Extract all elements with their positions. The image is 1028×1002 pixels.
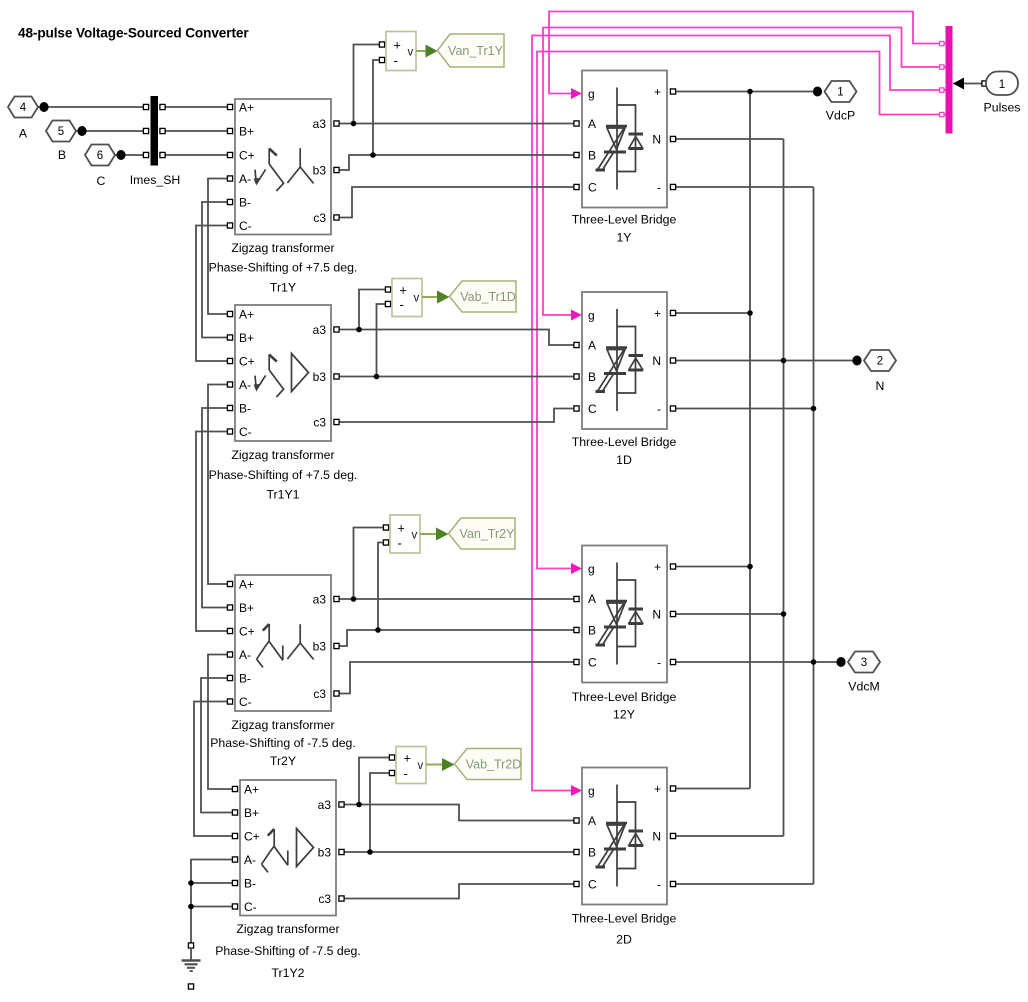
- bridge 1Y N output port square: [670, 136, 675, 141]
- svg-text:1D: 1D: [616, 453, 632, 467]
- input port 6 (C): [85, 145, 115, 166]
- Tr1Y1 a3 port square: [334, 327, 339, 332]
- wire phase B input row: [76, 130, 148, 132]
- wire Tr1Y a3 to 1Y A: [337, 123, 577, 125]
- Vab_Tr1D minus port square: [385, 301, 390, 306]
- wire Tr1Y2 b3 to 2D B: [342, 851, 577, 853]
- Tr1Y1 C- port square: [227, 429, 232, 434]
- svg-text:Pulses: Pulses: [984, 101, 1021, 115]
- Vab_Tr2D minus port square: [389, 770, 394, 775]
- wire 2D plus to plus bus: [673, 788, 750, 790]
- ground lone square: [188, 984, 193, 989]
- bridge 12Y + output port square: [670, 564, 675, 569]
- wire 1Y minus to minus bus: [673, 186, 814, 188]
- Tr1Y c3 port square: [334, 215, 339, 220]
- svg-text:1: 1: [999, 79, 1005, 91]
- wire tap a3 to Van_Tr1Y plus: [354, 45, 383, 124]
- svg-text:+: +: [654, 306, 661, 320]
- wire Tr1Y A- to Tr1Y1 A+: [208, 179, 230, 315]
- svg-text:+: +: [398, 521, 405, 535]
- wire Tr1Y1 C- to Tr2Y C+: [196, 432, 230, 632]
- Van_Tr1Y minus port square: [379, 57, 384, 62]
- goto tag Van_Tr2Y: [449, 518, 516, 549]
- wire Tr2Y a3 to 12Y A: [337, 598, 577, 600]
- junction Van_Tr1Y plus tap: [351, 121, 357, 127]
- svg-text:C+: C+: [244, 829, 260, 843]
- svg-text:Three-Level Bridge: Three-Level Bridge: [572, 213, 677, 227]
- svg-text:1: 1: [837, 87, 843, 99]
- svg-text:g: g: [588, 784, 595, 798]
- svg-text:Three-Level Bridge: Three-Level Bridge: [572, 435, 677, 449]
- wire tap b3 to Vab_Tr2D minus: [370, 773, 392, 852]
- Tr2Y A+ port square: [227, 581, 232, 586]
- bridge 2D A port square: [574, 818, 579, 823]
- Tr1Y A- port square: [227, 176, 232, 181]
- svg-text:a3: a3: [313, 592, 327, 606]
- svg-text:A+: A+: [244, 782, 259, 796]
- svg-text:A-: A-: [239, 172, 251, 186]
- svg-text:a3: a3: [318, 798, 332, 812]
- transformer Tr1Y1: [209, 305, 358, 502]
- wire tap a3 to Van_Tr2Y plus: [354, 528, 387, 600]
- svg-text:B-: B-: [239, 671, 251, 685]
- svg-text:A+: A+: [239, 577, 254, 591]
- Tr1Y1 A- port square: [227, 382, 232, 387]
- output port 1 (VdcP): [825, 81, 857, 102]
- Tr1Y2 c3 port square: [339, 896, 344, 901]
- svg-text:g: g: [588, 308, 595, 322]
- arrowhead into 1D gate: [571, 310, 582, 321]
- Van_Tr2Y plus port square: [383, 525, 388, 530]
- wire phase C input row: [115, 154, 148, 156]
- wire 1D minus to minus bus: [673, 408, 814, 410]
- wire 1Y plus to VdcP: [673, 91, 818, 93]
- svg-text:Phase-Shifting of +7.5 deg.: Phase-Shifting of +7.5 deg.: [209, 261, 358, 275]
- Tr2Y b3 port square: [334, 643, 339, 648]
- bridge 1D B port square: [574, 374, 579, 379]
- node port N dot: [852, 356, 861, 366]
- svg-text:VdcM: VdcM: [848, 680, 879, 694]
- wire tap b3 to Van_Tr1Y minus: [373, 60, 382, 155]
- Tr1Y C+ port square: [227, 152, 232, 157]
- junction Vab_Tr1D plus tap: [356, 327, 362, 333]
- Tr1Y2 A+ port square: [232, 786, 237, 791]
- Imes_SH right port square y=107: [160, 104, 165, 109]
- svg-text:N: N: [652, 829, 661, 843]
- bridge 12Y B port square: [574, 627, 579, 632]
- svg-text:B: B: [588, 623, 596, 637]
- Imes_SH measurement bar: [151, 96, 159, 166]
- svg-text:Zigzag transformer: Zigzag transformer: [231, 241, 334, 255]
- node VdcP dot: [813, 87, 822, 97]
- svg-text:C: C: [588, 655, 597, 669]
- ground: [182, 948, 201, 971]
- svg-text:Three-Level Bridge: Three-Level Bridge: [572, 912, 677, 926]
- svg-text:g: g: [588, 87, 595, 101]
- wire Tr1Y1 a3 to 1D A: [337, 330, 577, 346]
- svg-text:A: A: [588, 338, 596, 352]
- wire Tr1Y B- to Tr1Y1 B+: [202, 202, 230, 338]
- wire Tr1Y C- to Tr1Y1 C+: [196, 226, 230, 362]
- wire Tr1Y1 B- to Tr2Y B+: [202, 408, 230, 608]
- junction Van_Tr1Y minus tap: [370, 152, 376, 158]
- svg-text:Tr1Y: Tr1Y: [270, 281, 296, 295]
- Tr2Y a3 port square: [334, 596, 339, 601]
- Van_Tr2Y minus port square: [383, 540, 388, 545]
- wire 1D N to port N: [673, 360, 857, 362]
- Tr1Y2 A- port square: [232, 857, 237, 862]
- svg-text:C: C: [588, 180, 597, 194]
- svg-text:+: +: [394, 38, 401, 52]
- svg-text:-: -: [657, 655, 661, 669]
- svg-text:v: v: [412, 529, 418, 541]
- svg-text:Van_Tr2Y: Van_Tr2Y: [460, 527, 516, 541]
- arrowhead Pulses into demux: [953, 78, 964, 90]
- svg-text:B+: B+: [244, 806, 259, 820]
- svg-text:Vab_Tr1D: Vab_Tr1D: [460, 290, 516, 304]
- junction Vab_Tr2D plus tap: [356, 802, 362, 808]
- Tr1Y A+ port square: [227, 104, 232, 109]
- svg-text:+: +: [404, 751, 411, 765]
- svg-text:C-: C-: [239, 695, 252, 709]
- svg-text:g: g: [588, 562, 595, 576]
- transformer Tr1Y: [209, 99, 358, 295]
- bridge 1D + output port square: [670, 310, 675, 315]
- svg-text:Tr1Y2: Tr1Y2: [271, 966, 304, 980]
- svg-text:-: -: [398, 536, 402, 551]
- svg-text:A: A: [19, 127, 28, 141]
- svg-text:Zigzag transformer: Zigzag transformer: [231, 718, 334, 732]
- svg-text:b3: b3: [313, 163, 327, 177]
- bridge 2D N output port square: [670, 833, 675, 838]
- svg-text:B: B: [588, 845, 596, 859]
- Tr2Y A- port square: [227, 652, 232, 657]
- voltage measurement Van_Tr1Y: [386, 32, 504, 71]
- wire pulse line 4 to bridge 12Y gate: [537, 52, 946, 569]
- junction Van_Tr2Y plus tap: [351, 596, 357, 602]
- junction N bus 1D: [781, 358, 787, 364]
- wire Tr1Y1 b3 to 1D B: [337, 376, 577, 378]
- svg-text:Vab_Tr2D: Vab_Tr2D: [466, 758, 522, 772]
- node port4 dot: [39, 102, 48, 112]
- svg-text:-: -: [394, 53, 398, 68]
- svg-text:c3: c3: [313, 211, 326, 225]
- svg-text:A-: A-: [244, 853, 256, 867]
- Tr1Y2 b3 port square: [339, 849, 344, 854]
- svg-text:+: +: [654, 85, 661, 99]
- svg-text:A+: A+: [239, 100, 254, 114]
- svg-text:Zigzag transformer: Zigzag transformer: [231, 448, 334, 462]
- svg-text:B-: B-: [239, 195, 251, 209]
- Vab_Tr2D plus port square: [389, 755, 394, 760]
- ground port square: [188, 943, 193, 948]
- bridge 2D + output port square: [670, 786, 675, 791]
- voltage measurement Vab_Tr2D: [396, 747, 521, 784]
- junction minus bus 1D: [811, 406, 817, 412]
- svg-text:3: 3: [861, 657, 867, 669]
- input port 4 (A): [8, 97, 38, 118]
- Imes_SH left port square y=107: [143, 104, 148, 109]
- wire 12Y N to N bus: [673, 613, 784, 615]
- wire Tr2Y c3 to 12Y C: [337, 662, 577, 694]
- junction ground B-: [188, 880, 194, 886]
- svg-text:C: C: [588, 877, 597, 891]
- svg-text:A: A: [588, 117, 596, 131]
- bridge 1Y - output port square: [670, 184, 675, 189]
- Imes_SH right port square y=131: [160, 128, 165, 133]
- wire Tr2Y b3 to 12Y B: [337, 630, 577, 646]
- svg-text:c3: c3: [313, 415, 326, 429]
- svg-text:a3: a3: [313, 117, 327, 131]
- svg-text:b3: b3: [313, 370, 327, 384]
- Tr2Y C+ port square: [227, 628, 232, 633]
- transformer Tr2Y: [210, 575, 356, 768]
- svg-text:b3: b3: [318, 845, 332, 859]
- Tr1Y1 B- port square: [227, 405, 232, 410]
- wire Tr1Y2 B- to ground bus: [191, 882, 235, 884]
- svg-text:a3: a3: [313, 323, 327, 337]
- svg-text:+: +: [654, 782, 661, 796]
- junction minus bus 12Y: [811, 659, 817, 665]
- svg-text:-: -: [657, 877, 661, 891]
- three-level bridge 2D: [572, 768, 677, 947]
- junction plus bus 1D: [747, 310, 753, 316]
- junction plus bus 12Y: [747, 564, 753, 570]
- Tr1Y1 A+ port square: [227, 311, 232, 316]
- junction N bus 12Y: [781, 611, 787, 617]
- Imes_SH left port square y=131: [143, 128, 148, 133]
- svg-text:6: 6: [97, 150, 103, 162]
- wire DC plus bus vertical: [749, 92, 751, 789]
- three-level bridge 1Y: [572, 71, 677, 245]
- svg-text:A+: A+: [239, 307, 254, 321]
- wire Tr1Y2 A- to ground bus: [191, 860, 235, 946]
- wire Tr1Y c3 to 1Y C: [337, 187, 577, 218]
- Tr1Y2 B- port square: [232, 880, 237, 885]
- junction plus bus top: [747, 89, 753, 95]
- wire Tr1Y b3 to 1Y B: [337, 155, 577, 170]
- Tr1Y B+ port square: [227, 128, 232, 133]
- Vab_Tr1D plus port square: [385, 287, 390, 292]
- wire phase A input row: [38, 106, 148, 108]
- svg-text:12Y: 12Y: [613, 708, 635, 722]
- wire pulse line 1 to bridge 1Y gate: [549, 12, 946, 94]
- wire 1D plus to plus bus: [673, 312, 750, 314]
- svg-text:B: B: [588, 148, 596, 162]
- bridge 12Y C port square: [574, 659, 579, 664]
- junction Vab_Tr1D minus tap: [374, 374, 380, 380]
- svg-text:B-: B-: [244, 876, 256, 890]
- node port6 dot: [116, 150, 125, 160]
- svg-text:Zigzag transformer: Zigzag transformer: [236, 922, 339, 936]
- wire Tr1Y2 a3 to 2D A: [342, 805, 577, 821]
- wire Tr1Y2 c3 to 2D C: [342, 884, 577, 899]
- transformer Tr1Y2: [215, 780, 361, 980]
- svg-text:48-pulse Voltage-Sourced Conve: 48-pulse Voltage-Sourced Converter: [18, 26, 249, 41]
- svg-text:+: +: [654, 560, 661, 574]
- svg-text:4: 4: [20, 102, 27, 114]
- Tr1Y2 a3 port square: [339, 802, 344, 807]
- bridge 12Y N output port square: [670, 611, 675, 616]
- bridge 1Y C port square: [574, 184, 579, 189]
- svg-text:2D: 2D: [616, 933, 632, 947]
- wire Tr2Y A- to Tr1Y2 A+: [208, 655, 235, 790]
- bridge 1D - output port square: [670, 406, 675, 411]
- wire 12Y plus to plus bus: [673, 566, 750, 568]
- svg-text:N: N: [876, 379, 885, 393]
- svg-text:Three-Level Bridge: Three-Level Bridge: [572, 690, 677, 704]
- wire Tr1Y1 A- to Tr2Y A+: [208, 385, 230, 585]
- Tr1Y1 C+ port square: [227, 358, 232, 363]
- svg-text:-: -: [404, 766, 408, 781]
- bridge 1Y + output port square: [670, 89, 675, 94]
- arrowhead into 12Y gate: [571, 563, 582, 574]
- bridge 1Y B port square: [574, 152, 579, 157]
- svg-text:v: v: [414, 292, 420, 304]
- bridge 1Y A port square: [574, 121, 579, 126]
- svg-text:B: B: [58, 148, 66, 162]
- svg-text:C+: C+: [239, 624, 255, 638]
- svg-text:C-: C-: [239, 219, 252, 233]
- svg-text:C: C: [97, 174, 106, 188]
- svg-text:b3: b3: [313, 639, 327, 653]
- svg-text:C: C: [588, 402, 597, 416]
- wire tap a3 to Vab_Tr2D plus: [359, 758, 392, 805]
- wire Tr1Y2 C- to ground bus: [191, 906, 235, 908]
- svg-text:Imes_SH: Imes_SH: [130, 173, 181, 187]
- svg-text:c3: c3: [313, 687, 326, 701]
- junction Vab_Tr2D minus tap: [367, 849, 373, 855]
- output port 2 (N): [864, 350, 896, 371]
- wire 2D minus to minus bus: [673, 883, 814, 885]
- wire Tr1Y1 c3 to 1D C: [337, 409, 577, 423]
- wire Tr2Y B- to Tr1Y2 B+: [201, 678, 235, 813]
- Tr1Y1 B+ port square: [227, 335, 232, 340]
- svg-text:C+: C+: [239, 354, 255, 368]
- svg-text:5: 5: [58, 126, 64, 138]
- svg-text:VdcP: VdcP: [826, 109, 855, 123]
- Tr1Y1 c3 port square: [334, 419, 339, 424]
- wire 2D N to N bus: [673, 835, 784, 837]
- Tr2Y C- port square: [227, 699, 232, 704]
- svg-text:v: v: [418, 760, 424, 772]
- svg-text:A: A: [588, 814, 596, 828]
- Tr1Y a3 port square: [334, 121, 339, 126]
- Tr1Y1 b3 port square: [334, 374, 339, 379]
- wire Pulses port to demux: [953, 83, 986, 85]
- svg-text:Phase-Shifting of -7.5 deg.: Phase-Shifting of -7.5 deg.: [215, 944, 361, 958]
- svg-text:C-: C-: [239, 425, 252, 439]
- svg-text:C+: C+: [239, 148, 255, 162]
- svg-text:B+: B+: [239, 331, 254, 345]
- bridge 2D C port square: [574, 881, 579, 886]
- svg-text:B+: B+: [239, 601, 254, 615]
- Tr2Y c3 port square: [334, 691, 339, 696]
- Imes_SH left port square y=155: [143, 152, 148, 157]
- three-level bridge 12Y: [572, 546, 677, 722]
- svg-text:-: -: [657, 402, 661, 416]
- bridge 12Y - output port square: [670, 659, 675, 664]
- Pulses port square: [982, 81, 987, 86]
- svg-text:A: A: [588, 592, 596, 606]
- svg-text:B: B: [588, 370, 596, 384]
- three-level bridge 1D: [572, 292, 677, 467]
- Tr1Y b3 port square: [334, 167, 339, 172]
- bridge 2D - output port square: [670, 881, 675, 886]
- wire tap b3 to Vab_Tr1D minus: [377, 304, 389, 377]
- svg-text:A-: A-: [239, 648, 251, 662]
- bridge 1D A port square: [574, 342, 579, 347]
- svg-text:1Y: 1Y: [616, 231, 631, 245]
- svg-text:2: 2: [877, 356, 883, 368]
- svg-text:B+: B+: [239, 124, 254, 138]
- goto tag Vab_Tr1D: [450, 281, 517, 312]
- wire 12Y minus to VdcM: [673, 661, 841, 663]
- junction ground C-: [188, 904, 194, 910]
- bridge 12Y A port square: [574, 596, 579, 601]
- Tr1Y B- port square: [227, 199, 232, 204]
- wire 1Y N to N bus: [673, 138, 784, 140]
- svg-text:C-: C-: [244, 900, 257, 914]
- bridge 2D B port square: [574, 849, 579, 854]
- wire pulse line 2 to bridge 1D gate: [543, 28, 946, 316]
- svg-text:v: v: [408, 46, 414, 58]
- Tr1Y2 B+ port square: [232, 810, 237, 815]
- svg-text:+: +: [400, 283, 407, 297]
- Tr1Y2 C- port square: [232, 904, 237, 909]
- Tr2Y B+ port square: [227, 605, 232, 610]
- svg-text:-: -: [657, 180, 661, 194]
- svg-text:Van_Tr1Y: Van_Tr1Y: [448, 44, 504, 58]
- svg-text:B-: B-: [239, 401, 251, 415]
- Van_Tr1Y plus port square: [379, 42, 384, 47]
- svg-text:N: N: [652, 132, 661, 146]
- wire tap a3 to Vab_Tr1D plus: [359, 290, 388, 330]
- goto tag Vab_Tr2D: [455, 749, 522, 780]
- svg-text:Tr2Y: Tr2Y: [270, 754, 296, 768]
- svg-text:N: N: [652, 354, 661, 368]
- node VdcM dot: [836, 657, 845, 667]
- svg-text:Phase-Shifting of -7.5 deg.: Phase-Shifting of -7.5 deg.: [210, 736, 356, 750]
- Tr2Y B- port square: [227, 675, 232, 680]
- arrowhead into 1Y gate: [571, 88, 582, 99]
- wire neutral bus vertical: [783, 139, 785, 836]
- Tr1Y2 C+ port square: [232, 833, 237, 838]
- svg-text:A-: A-: [239, 378, 251, 392]
- bridge 1D C port square: [574, 406, 579, 411]
- wire pulse line 3 to bridge 2D gate: [532, 36, 946, 791]
- input port 1 (Pulses): [986, 72, 1018, 96]
- junction Van_Tr2Y minus tap: [375, 627, 381, 633]
- wire DC minus bus vertical: [813, 187, 815, 884]
- goto tag Van_Tr1Y: [438, 34, 505, 67]
- demux bar for Pulses: [946, 26, 953, 134]
- Tr1Y C- port square: [227, 223, 232, 228]
- svg-text:Tr1Y1: Tr1Y1: [266, 488, 299, 502]
- wire tap b3 to Van_Tr2Y minus: [378, 543, 386, 631]
- node port5 dot: [77, 126, 86, 136]
- wire Tr2Y C- to Tr1Y2 C+: [194, 702, 235, 837]
- Imes_SH right port square y=155: [160, 152, 165, 157]
- svg-text:c3: c3: [318, 892, 331, 906]
- bridge 1D N output port square: [670, 358, 675, 363]
- svg-text:-: -: [400, 297, 404, 312]
- voltage measurement Van_Tr2Y: [390, 515, 515, 553]
- voltage measurement Vab_Tr1D: [392, 279, 516, 317]
- output port 3 (VdcM): [848, 652, 880, 673]
- svg-text:N: N: [652, 607, 661, 621]
- svg-text:Phase-Shifting of +7.5 deg.: Phase-Shifting of +7.5 deg.: [209, 468, 358, 482]
